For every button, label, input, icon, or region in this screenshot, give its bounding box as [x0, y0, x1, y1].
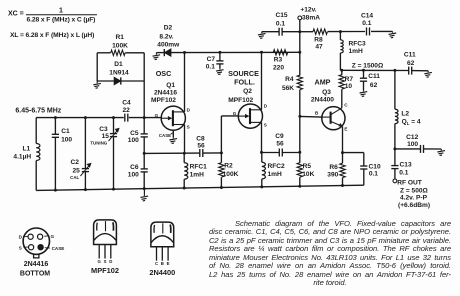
- svg-text:D1: D1: [114, 61, 123, 68]
- svg-text:MPF102: MPF102: [151, 97, 176, 104]
- svg-text:390: 390: [327, 171, 338, 178]
- svg-text:C9: C9: [275, 133, 284, 140]
- capacitor C5: [143, 118, 145, 134]
- svg-text:L2: L2: [401, 110, 409, 117]
- svg-text:G: G: [233, 111, 237, 116]
- resistor R3: [273, 50, 287, 55]
- svg-text:100: 100: [61, 136, 72, 143]
- wire top rail tank: [36, 117, 124, 119]
- wire Q1 drain up: [184, 53, 186, 112]
- svg-text:E: E: [344, 127, 347, 132]
- svg-text:0.1: 0.1: [206, 64, 215, 71]
- node C9-R5: [298, 151, 301, 154]
- svg-text:RF OUT: RF OUT: [397, 179, 422, 186]
- svg-text:D: D: [187, 107, 191, 112]
- ground after C14: [389, 31, 397, 37]
- svg-text:+12v.: +12v.: [300, 7, 316, 14]
- svg-text:D: D: [109, 259, 112, 264]
- svg-text:56: 56: [197, 142, 205, 149]
- svg-text:C6: C6: [130, 164, 139, 171]
- svg-text:RFC3: RFC3: [349, 40, 367, 47]
- inductor L1: [35, 118, 37, 144]
- svg-text:62: 62: [407, 60, 415, 67]
- svg-text:56K: 56K: [282, 85, 294, 92]
- wire Q3 emitter down: [342, 127, 344, 153]
- node gate-rail junction: [143, 116, 146, 119]
- svg-text:BOTTOM: BOTTOM: [20, 271, 50, 278]
- Q1 case lead and ground: [172, 130, 174, 137]
- capacitor C8: [200, 149, 203, 157]
- svg-text:Z = 500Ω: Z = 500Ω: [400, 187, 429, 194]
- svg-text:2N4400: 2N4400: [149, 268, 175, 277]
- svg-text:C11: C11: [404, 51, 416, 58]
- node drain-supply: [183, 51, 186, 54]
- svg-text:25: 25: [73, 168, 81, 175]
- svg-text:MPF102: MPF102: [228, 97, 253, 104]
- svg-text:47: 47: [315, 44, 323, 51]
- op supply line D2: [156, 52, 164, 54]
- svg-text:0.1: 0.1: [276, 20, 285, 27]
- wire Q2 drain up: [261, 52, 263, 110]
- svg-text:100: 100: [407, 141, 418, 148]
- svg-text:R4: R4: [285, 76, 294, 83]
- svg-text:MPF102: MPF102: [91, 266, 119, 275]
- svg-text:R7: R7: [345, 76, 354, 83]
- svg-text:Q1: Q1: [166, 82, 175, 89]
- node C12: [393, 147, 396, 150]
- svg-text:1mH: 1mH: [349, 48, 364, 55]
- wire R1 left vertical: [96, 53, 98, 81]
- svg-text:2N4416: 2N4416: [154, 90, 177, 97]
- svg-text:220: 220: [273, 64, 284, 71]
- svg-text:4.2v. P-P: 4.2v. P-P: [400, 195, 428, 202]
- diode D1: [114, 77, 121, 84]
- svg-text:Q2: Q2: [243, 88, 252, 95]
- capacitor C14: [367, 27, 370, 35]
- node emitter: [341, 151, 344, 154]
- svg-text:C14: C14: [361, 12, 373, 19]
- wire bottom ground rail: [36, 185, 364, 190]
- node R2 top: [220, 151, 223, 154]
- 2N4416 bottom view package: [23, 228, 49, 258]
- inductor L2: [395, 109, 398, 123]
- svg-text:FOLL.: FOLL.: [234, 77, 255, 86]
- resistor R8: [313, 29, 327, 34]
- svg-text:0.1: 0.1: [369, 170, 378, 177]
- svg-text:6.28 x F (MHz) x C (µF): 6.28 x F (MHz) x C (µF): [27, 17, 96, 24]
- svg-text:AMP: AMP: [315, 78, 331, 87]
- node C5-C6: [143, 152, 146, 155]
- node Q3 base: [298, 115, 301, 118]
- svg-text:R1: R1: [115, 34, 124, 41]
- svg-text:56: 56: [276, 141, 284, 148]
- ground below D1 left: [93, 81, 101, 88]
- capacitor C4: [125, 114, 128, 122]
- svg-text:(+6.6dBm): (+6.6dBm): [398, 202, 430, 209]
- node L2 top: [393, 69, 396, 72]
- svg-text:2N4400: 2N4400: [311, 97, 334, 104]
- svg-text:100: 100: [128, 137, 139, 144]
- svg-text:Z = 1500Ω: Z = 1500Ω: [352, 62, 384, 69]
- capacitor C1: [54, 118, 56, 135]
- capacitor C10: [343, 152, 364, 154]
- svg-text:22: 22: [123, 107, 131, 114]
- svg-text:QL = 4: QL = 4: [402, 119, 421, 126]
- transistor Q3 2N4400: [322, 107, 345, 130]
- wire R1 top: [97, 52, 111, 54]
- svg-text:1: 1: [59, 7, 63, 14]
- svg-text:L1: L1: [22, 146, 30, 153]
- svg-text:G: G: [98, 259, 102, 264]
- svg-text:0.1: 0.1: [399, 169, 408, 176]
- resistor R1: [111, 50, 125, 55]
- svg-text:XC =: XC =: [8, 11, 24, 18]
- svg-text:RFC2: RFC2: [268, 163, 286, 170]
- node Z-line left: [340, 69, 343, 72]
- wire bias vertical to gate rail: [143, 53, 145, 118]
- svg-text:S: S: [19, 245, 22, 250]
- svg-text:D: D: [19, 234, 23, 239]
- capacitor C15: [279, 28, 282, 36]
- svg-text:6.45-6.75 MHz: 6.45-6.75 MHz: [15, 108, 61, 115]
- RF OUT terminal: [393, 179, 397, 183]
- svg-text:100K: 100K: [112, 42, 128, 49]
- capacitor C2 trimmer: [84, 118, 86, 169]
- wire D1 line: [97, 80, 114, 82]
- svg-text:CAL: CAL: [70, 175, 79, 180]
- svg-text:S: S: [264, 123, 267, 128]
- zener diode D2: [164, 49, 171, 56]
- svg-text:D2: D2: [164, 25, 173, 32]
- svg-text:1mH: 1mH: [190, 171, 205, 178]
- svg-text:C15: C15: [275, 12, 287, 19]
- svg-text:C11: C11: [368, 73, 380, 80]
- 2N4400 package: [151, 222, 174, 247]
- svg-text:E: E: [167, 261, 170, 266]
- svg-text:4.1µH: 4.1µH: [13, 153, 31, 160]
- ground tap below rail: [141, 189, 149, 201]
- svg-text:C7: C7: [207, 56, 216, 63]
- svg-text:10K: 10K: [302, 171, 314, 178]
- svg-text:100: 100: [128, 171, 139, 178]
- svg-text:R8: R8: [314, 36, 323, 43]
- caption text: [209, 220, 451, 288]
- svg-text:400mw: 400mw: [157, 41, 180, 48]
- capacitor C6: [143, 153, 145, 169]
- svg-text:C: C: [155, 261, 158, 266]
- svg-text:R5: R5: [303, 163, 312, 170]
- svg-text:C2: C2: [70, 159, 79, 166]
- MPF102 package: [94, 220, 117, 245]
- svg-text:15: 15: [102, 133, 110, 140]
- svg-text:G: G: [51, 234, 55, 239]
- svg-text:S: S: [187, 125, 190, 130]
- ground at D2: [153, 53, 161, 60]
- svg-text:100K: 100K: [223, 171, 239, 178]
- svg-text:D: D: [264, 104, 268, 109]
- C15 bypass line: [262, 31, 279, 33]
- svg-text:C: C: [344, 103, 348, 108]
- capacitor C3 tuning: [113, 118, 115, 134]
- resistor R2 branch: [220, 153, 222, 163]
- svg-text:0.1: 0.1: [362, 20, 371, 27]
- wire R8 line: [300, 31, 313, 33]
- wire up to Q2 gate: [220, 116, 222, 153]
- svg-text:8.2v.: 8.2v.: [159, 33, 173, 40]
- inductor RFC1: [183, 153, 185, 163]
- wire top rail C4 to Q1 gate: [129, 117, 162, 119]
- svg-text:C8: C8: [196, 135, 205, 142]
- wire Q2 source down: [261, 122, 263, 152]
- svg-text:C1: C1: [61, 128, 70, 135]
- svg-text:C12: C12: [406, 134, 418, 141]
- svg-text:C3: C3: [99, 126, 108, 133]
- svg-text:CASE: CASE: [52, 246, 65, 251]
- capacitor C9: [262, 152, 280, 154]
- resistor R6: [342, 153, 344, 164]
- inductor RFC3: [339, 32, 341, 40]
- node Q2 source: [260, 151, 263, 154]
- capacitor C7: [219, 52, 221, 61]
- svg-text:C5: C5: [130, 130, 139, 137]
- transistor Q2 MPF102: [238, 104, 262, 128]
- svg-text:B: B: [161, 261, 164, 266]
- inductor RFC2: [261, 152, 263, 162]
- capacitor C11 series: [409, 67, 412, 75]
- svg-text:Q3: Q3: [322, 89, 331, 96]
- capacitor C11 shunt: [362, 69, 365, 72]
- svg-text:OSC: OSC: [156, 69, 172, 78]
- node source: [183, 152, 186, 155]
- svg-text:TUNING: TUNING: [90, 141, 107, 146]
- svg-text:CASE: CASE: [159, 133, 171, 138]
- svg-text:1mH: 1mH: [268, 171, 283, 178]
- capacitor C13: [394, 149, 396, 166]
- svg-text:R6: R6: [329, 164, 338, 171]
- svg-text:10: 10: [345, 83, 353, 90]
- svg-text:R2: R2: [224, 163, 233, 170]
- wire node line to C8: [144, 152, 200, 154]
- +12V terminal: [298, 16, 302, 20]
- svg-text:1N914: 1N914: [109, 70, 129, 77]
- wire Q1 source down: [184, 125, 186, 154]
- svg-text:2N4416: 2N4416: [24, 261, 49, 268]
- transistor Q1 2N4416: [161, 106, 185, 130]
- svg-text:B: B: [315, 110, 319, 115]
- resistor R4: [297, 75, 302, 89]
- wire +12V vertical: [299, 20, 301, 76]
- node RFC3 tap: [339, 30, 342, 33]
- svg-text:C13: C13: [400, 161, 412, 168]
- svg-text:S: S: [104, 259, 107, 264]
- node Q2 drain supply: [260, 51, 263, 54]
- svg-text:RFC1: RFC1: [190, 163, 208, 170]
- svg-text:G: G: [155, 113, 159, 118]
- svg-text:R3: R3: [274, 57, 283, 64]
- svg-text:62: 62: [370, 82, 378, 89]
- svg-text:XL = 6.28 x F (MHz) x L (µH): XL = 6.28 x F (MHz) x L (µH): [10, 32, 94, 39]
- svg-text:38mA: 38mA: [302, 14, 320, 21]
- svg-text:C4: C4: [122, 99, 131, 106]
